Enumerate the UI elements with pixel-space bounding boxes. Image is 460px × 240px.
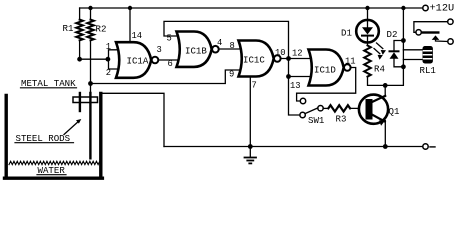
wire Q1 emitter down (384, 121, 386, 147)
wire feedback loop IC1C out to IC1B pin 5 (164, 21, 289, 58)
wire Q1 collector up (384, 85, 386, 96)
svg-text:4: 4 (217, 38, 222, 48)
wire pin 2 stub (109, 59, 119, 69)
node collector junction (383, 83, 388, 88)
svg-text:R2: R2 (96, 24, 107, 35)
wire +12V top rail (80, 7, 423, 9)
wire collector node to relay branch (385, 67, 403, 86)
svg-text:13: 13 (290, 81, 301, 91)
wire pin13 node to SW1 lower contact (289, 77, 300, 116)
svg-text:2: 2 (106, 68, 111, 78)
metal tank (5, 94, 103, 179)
svg-text:Q1: Q1 (389, 106, 400, 117)
relay RL1 contacts (414, 19, 453, 44)
water line (9, 161, 101, 164)
svg-text:SW1: SW1 (308, 115, 325, 126)
transistor Q1 (359, 95, 400, 126)
wire steel rod to IC1C pin 9 (91, 70, 241, 84)
op-amp gate IC1B (177, 32, 219, 67)
steel rod long (89, 93, 91, 158)
svg-text:IC1B: IC1B (185, 46, 207, 57)
svg-text:1: 1 (106, 42, 111, 52)
terminal +12V (423, 5, 428, 10)
op-amp gate IC1A (116, 42, 158, 78)
node long rod junction (88, 81, 93, 86)
op-amp gate IC1D (309, 50, 351, 86)
wire SW1 to R3 (323, 107, 328, 109)
wire metal tank to ground (101, 93, 164, 146)
resistor R4 (364, 42, 385, 85)
node IC1A input tie (106, 57, 111, 62)
svg-text:RL1: RL1 (420, 65, 437, 76)
svg-text:9: 9 (229, 70, 234, 80)
svg-text:R1: R1 (63, 23, 74, 34)
svg-text:IC1A: IC1A (127, 56, 149, 67)
wire pin 1 stub (109, 50, 119, 59)
svg-text:6: 6 (168, 59, 173, 69)
node emitter ground junction (383, 144, 388, 149)
svg-text:IC1D: IC1D (314, 65, 336, 76)
switch SW1 lower contact (300, 112, 305, 117)
node R2 top junction (88, 6, 92, 10)
node IC1C out junction (286, 56, 291, 61)
LED D1 (341, 8, 379, 43)
node ground junction (248, 144, 253, 149)
wire pin 14 power (129, 8, 131, 43)
wire IC1B out to IC1C pin 8 (219, 48, 241, 50)
svg-text:R3: R3 (336, 114, 347, 125)
svg-text:D1: D1 (341, 28, 352, 39)
wire rod to junction (90, 84, 92, 94)
svg-text:11: 11 (345, 57, 356, 67)
svg-text:8: 8 (230, 41, 235, 51)
wire IC1D out to SW1 upper contact (297, 68, 356, 102)
svg-text:+12U: +12U (430, 3, 455, 15)
terminal minus (423, 144, 428, 149)
svg-text:14: 14 (132, 31, 143, 41)
svg-text:5: 5 (167, 34, 172, 44)
svg-text:7: 7 (252, 81, 257, 91)
node pin 13 junction (286, 74, 291, 79)
wire R3 to Q1 base (350, 107, 365, 109)
wire pin 7 ground (249, 77, 251, 147)
ground rail bottom (164, 146, 423, 148)
svg-text:D2: D2 (387, 29, 398, 40)
wire IC1C out to IC1D pin 12 (281, 58, 310, 60)
wire IC1A out to IC1B pin 6 (159, 59, 180, 61)
resistor R2 (87, 8, 106, 84)
steel rod short (79, 93, 81, 111)
svg-text:R4: R4 (374, 64, 385, 75)
node relay rail junction (401, 6, 405, 10)
steel rods arrow (64, 122, 78, 135)
wire pin 12 to pin 13 tie (289, 59, 311, 77)
op-amp gate IC1C (239, 41, 281, 77)
switch SW1 lever (305, 108, 318, 114)
node D1 rail junction (365, 6, 369, 10)
rod holder crossbar (73, 97, 98, 103)
node D2 top junction (401, 38, 406, 43)
relay RL1 coil (403, 46, 436, 76)
switch SW1 upper contact (300, 98, 305, 103)
resistor R3 (328, 105, 350, 124)
node pin14 rail junction (128, 6, 132, 10)
svg-text:12: 12 (292, 49, 303, 59)
node D2 bottom junction (401, 64, 406, 69)
switch SW1 pole contact (318, 106, 323, 111)
ground symbol (245, 147, 257, 164)
wire relay main vertical (402, 8, 404, 67)
wire sensor to IC1A inputs (80, 58, 108, 60)
svg-text:3: 3 (157, 45, 162, 55)
LED light arrows (374, 43, 386, 60)
resistor R1 (63, 8, 83, 59)
diode D2 (387, 29, 404, 67)
svg-text:10: 10 (275, 48, 286, 58)
svg-text:IC1C: IC1C (243, 55, 265, 66)
node R1 bottom sensor junction (77, 57, 82, 62)
